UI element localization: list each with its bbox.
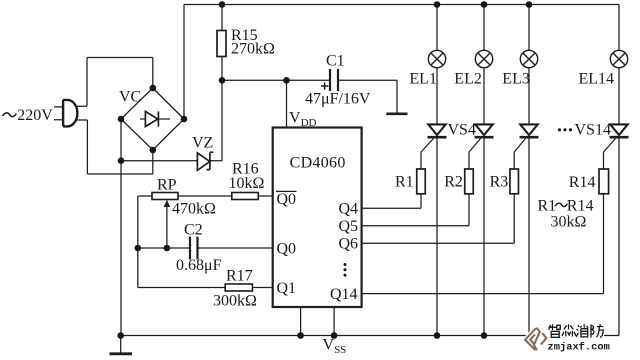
svg-text:VS14: VS14: [575, 122, 611, 139]
svg-text:Q14: Q14: [330, 286, 358, 303]
wire Q6 to R3: [362, 194, 515, 244]
svg-text:R1: R1: [538, 197, 557, 214]
svg-text:47μF/16V: 47μF/16V: [305, 91, 371, 108]
svg-text:CD4060: CD4060: [290, 154, 346, 171]
resistor R2: [465, 169, 474, 194]
wire bottom rail: [121, 335, 619, 337]
svg-text:VZ: VZ: [192, 135, 213, 152]
wire VDD row: [222, 80, 397, 112]
svg-text:VDD: VDD: [289, 109, 317, 129]
svg-text:220V: 220V: [17, 107, 53, 124]
wire Q5 to R2: [362, 194, 469, 226]
wire Q14 to R14: [362, 194, 604, 294]
svg-text:zmjaxf.com: zmjaxf.com: [548, 341, 610, 353]
svg-text:EL3: EL3: [502, 71, 530, 88]
svg-text:Q4: Q4: [339, 201, 359, 218]
node RP wiper bottom: [164, 245, 171, 252]
wire gate VS4 to R1: [421, 139, 434, 170]
wire Q4 to R1: [362, 194, 421, 209]
svg-text:VC: VC: [119, 89, 141, 106]
node EL3 top: [526, 1, 533, 8]
thyristor VS14: [610, 124, 629, 137]
node bridge bottom: [150, 147, 157, 154]
plug ~220V: [63, 100, 77, 127]
wire plug top to bridge top vertex: [76, 58, 153, 107]
wire plug bottom to bridge bottom vertex: [76, 120, 153, 174]
wire gate of EL2 thyristor to R2: [469, 139, 481, 170]
svg-text:Q0: Q0: [277, 240, 297, 257]
node ground: [117, 332, 124, 339]
node VSS stub: [331, 332, 338, 339]
wire RP row: [138, 195, 273, 197]
node EL2 bottom: [481, 332, 488, 339]
wire gate VS14 to R14: [604, 139, 616, 170]
wire EL14 branch lower: [618, 68, 620, 336]
label ~220V: [3, 113, 17, 117]
capacitor C1: [330, 69, 338, 91]
node C2 row left: [135, 245, 142, 252]
node EL1 bottom: [434, 332, 441, 339]
wire rail-left down to bridge right vertex: [183, 5, 185, 120]
svg-text:EL2: EL2: [454, 71, 482, 88]
watermark text 智淼消防: [549, 324, 604, 337]
wire VZ row: [121, 160, 222, 162]
wire R15 column: [221, 5, 223, 161]
resistor R14: [599, 169, 609, 194]
svg-text:10kΩ: 10kΩ: [229, 175, 265, 192]
zener diode VZ: [197, 152, 213, 170]
thyristor at EL2: [475, 124, 494, 137]
IC ellipsis: [344, 263, 347, 277]
wire IC ground stubs: [301, 307, 335, 336]
svg-text:R17: R17: [226, 267, 253, 284]
lamp EL14: [610, 50, 627, 67]
svg-text:Q0: Q0: [277, 191, 297, 208]
resistor R3: [510, 169, 519, 194]
resistor R1: [417, 169, 426, 194]
thyristor at EL3: [520, 124, 539, 137]
svg-text:470kΩ: 470kΩ: [172, 201, 216, 218]
svg-text:R14: R14: [569, 174, 596, 191]
watermark logo: [525, 328, 546, 351]
wire EL1 branch: [436, 5, 438, 336]
svg-text:C1: C1: [326, 53, 345, 70]
svg-text:Q6: Q6: [339, 236, 359, 253]
svg-text:R2: R2: [444, 174, 463, 191]
node VDD-VZ junction: [219, 77, 226, 84]
C1 negative terminal bar: [386, 113, 407, 116]
node bridge right: [181, 116, 188, 123]
svg-text:R1: R1: [395, 174, 414, 191]
lamp EL3: [520, 50, 537, 67]
svg-text:R3: R3: [490, 174, 509, 191]
wire bridge left vertex down to ground rail: [120, 119, 122, 336]
svg-text:C2: C2: [184, 221, 203, 238]
bridge rectifier VC diamond: [121, 88, 184, 150]
node EL1 top: [434, 1, 441, 8]
wire gate of EL3 thyristor to R3: [514, 139, 525, 170]
node bridge top: [150, 85, 157, 92]
node EL2 top: [481, 1, 488, 8]
svg-text:EL1: EL1: [409, 71, 437, 88]
potentiometer RP body: [152, 193, 178, 200]
C1 plus sign: [321, 82, 328, 89]
wire EL2 branch: [483, 5, 485, 336]
node IC stub 1: [297, 332, 304, 339]
node bridge left: [118, 116, 125, 123]
lamp EL1: [428, 50, 445, 67]
wire RC loop left vertical: [137, 196, 139, 288]
resistor R15: [217, 31, 226, 57]
svg-text:Q1: Q1: [277, 280, 297, 297]
ellipsis before VS14: [558, 128, 572, 131]
svg-text:270kΩ: 270kΩ: [231, 41, 275, 58]
thyristor VS4: [428, 124, 447, 137]
ground: [120, 336, 122, 354]
RP wiper arrowhead: [164, 200, 171, 207]
wire VDD pin: [286, 80, 288, 127]
svg-text:Q5: Q5: [339, 218, 359, 235]
svg-text:R14: R14: [567, 197, 594, 214]
capacitor C2: [190, 237, 198, 260]
node VDD pin: [283, 77, 290, 84]
svg-text:VSS: VSS: [323, 337, 347, 357]
watermark white halo: [547, 323, 605, 339]
svg-text:30kΩ: 30kΩ: [551, 214, 587, 231]
wire rail-right down to lamp EL14: [618, 5, 620, 51]
svg-text:300kΩ: 300kΩ: [213, 293, 257, 310]
svg-text:0.68μF: 0.68μF: [176, 257, 222, 274]
svg-text:EL14: EL14: [579, 71, 615, 88]
op IC U1 CD4060 body: [273, 128, 362, 308]
lamp EL2: [475, 50, 492, 67]
wire top supply rail: [184, 4, 619, 6]
resistor R16: [232, 193, 258, 200]
wire plug prongs: [54, 107, 63, 120]
wire C2 row: [138, 247, 273, 249]
svg-text:RP: RP: [157, 177, 177, 194]
resistor R17: [225, 284, 252, 291]
svg-text:VS4: VS4: [448, 122, 476, 139]
wire EL3 branch: [528, 5, 530, 336]
wire RP wiper: [166, 205, 168, 249]
node R15 top: [219, 1, 226, 8]
wire R17 row: [138, 287, 273, 289]
node VZ branch: [118, 157, 125, 164]
bridge inner diode: [140, 111, 170, 126]
